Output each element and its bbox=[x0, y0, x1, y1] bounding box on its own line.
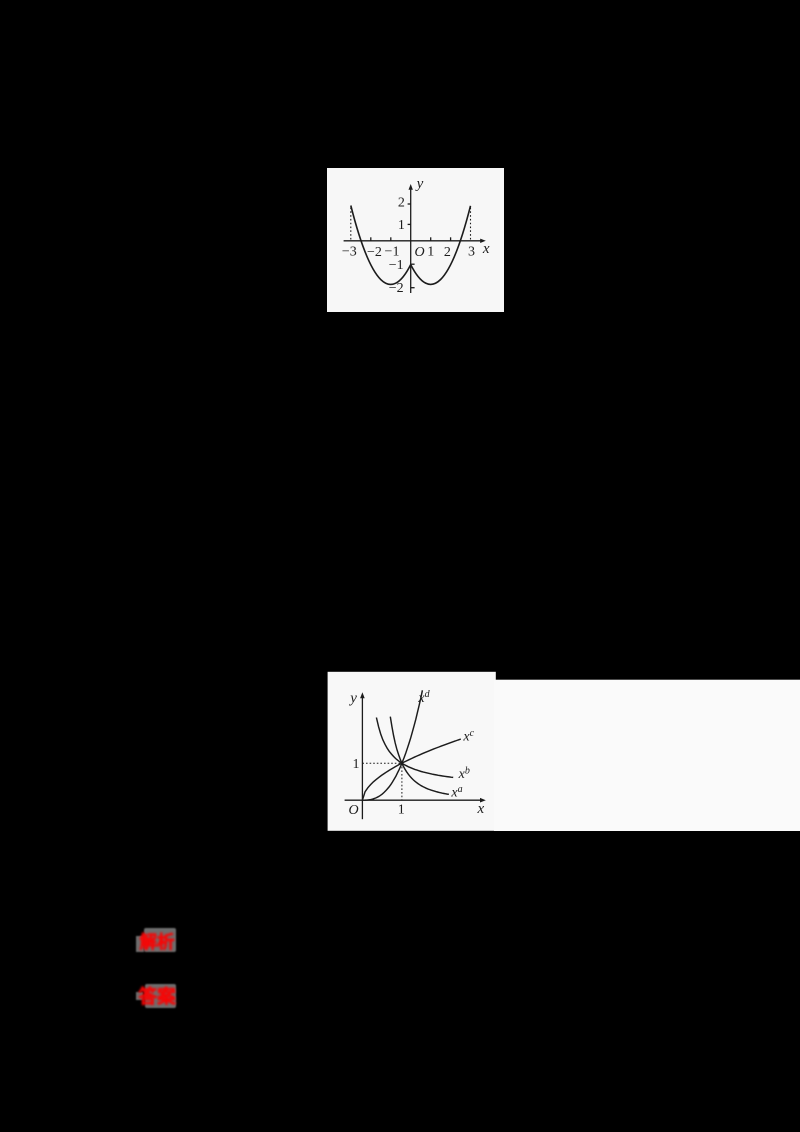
svg-text:y: y bbox=[415, 176, 424, 192]
tick x=2 bbox=[450, 237, 452, 241]
white card background bbox=[327, 168, 504, 312]
red tag 2 gray box bbox=[145, 984, 177, 1008]
svg-text:−1: −1 bbox=[385, 245, 400, 260]
dotted guide y=1 bbox=[362, 762, 402, 764]
svg-text:1: 1 bbox=[398, 218, 405, 233]
curve y=x^2-2|x|-1 bbox=[351, 206, 471, 285]
y-axis arrowhead bbox=[409, 184, 413, 190]
tick x=-1 bbox=[390, 237, 392, 241]
red tag 1 gray box bbox=[144, 928, 176, 952]
y-axis bbox=[410, 188, 412, 294]
svg-text:2: 2 bbox=[398, 196, 405, 211]
svg-text:1: 1 bbox=[398, 802, 405, 817]
svg-text:O: O bbox=[349, 803, 359, 818]
svg-text:x: x bbox=[477, 801, 485, 817]
tick x=1 bbox=[430, 237, 432, 241]
tick y=1 bbox=[408, 223, 411, 225]
y-axis arrowhead bbox=[360, 692, 365, 698]
curve x^c bbox=[362, 739, 460, 800]
svg-text:−2: −2 bbox=[389, 281, 404, 296]
figure 2: power curves x^a x^b x^c x^d on white band bbox=[327, 671, 800, 832]
svg-text:x: x bbox=[482, 241, 490, 257]
tick y=-2 bbox=[411, 287, 415, 289]
svg-text:3: 3 bbox=[468, 245, 475, 260]
tick x=-2 bbox=[370, 237, 372, 241]
tick y=-1 bbox=[411, 263, 415, 265]
x-axis arrowhead bbox=[480, 798, 486, 803]
tick y=2 bbox=[408, 203, 411, 205]
y-axis bbox=[361, 696, 363, 819]
figure 1: graph of y = x^2 - 2|x| - 1 on white card bbox=[327, 168, 504, 312]
dotted guide x=3 bbox=[470, 208, 472, 241]
red tag 1 left tab bbox=[136, 936, 144, 952]
svg-text:1: 1 bbox=[353, 757, 360, 772]
svg-text:−2: −2 bbox=[367, 245, 382, 260]
curve x^d bbox=[362, 690, 422, 800]
svg-text:1: 1 bbox=[427, 245, 434, 260]
white card background (chart part) bbox=[328, 672, 496, 831]
x-axis bbox=[345, 799, 482, 801]
curve x^b bbox=[376, 718, 453, 778]
white band right extension bbox=[494, 680, 800, 831]
svg-text:O: O bbox=[415, 245, 425, 260]
red tag 2 text bbox=[139, 987, 177, 1007]
svg-text:2: 2 bbox=[444, 245, 451, 260]
svg-text:−3: −3 bbox=[342, 245, 357, 260]
dotted guide x=1 bbox=[401, 763, 403, 800]
red tag 1 text bbox=[140, 932, 178, 952]
dotted guide x=-3 bbox=[350, 208, 352, 241]
x-axis bbox=[344, 240, 482, 242]
curve x^a bbox=[390, 717, 449, 795]
svg-text:y: y bbox=[348, 690, 357, 706]
red tag 2 left tab bbox=[136, 992, 143, 1000]
svg-text:−1: −1 bbox=[389, 258, 404, 273]
x-axis arrowhead bbox=[480, 239, 486, 243]
